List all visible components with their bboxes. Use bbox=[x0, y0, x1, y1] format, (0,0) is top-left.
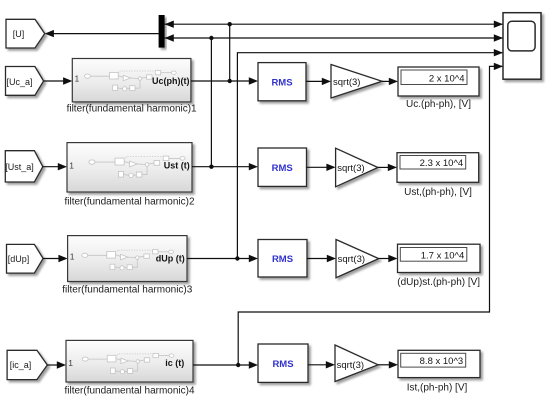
svg-text:[U]: [U] bbox=[13, 29, 25, 39]
RMS block row4 bbox=[258, 344, 308, 382]
wire line2: filter2 branch to mux input 2 and scope input 2 bbox=[165, 34, 503, 41]
wire sqrt1 to display1 bbox=[382, 78, 398, 85]
wire filter2 to RMS2 bbox=[192, 163, 258, 170]
svg-text:RMS: RMS bbox=[271, 77, 292, 88]
gain sqrt(3) row3 bbox=[336, 240, 379, 278]
wire line1: filter1 branch to mux input 1 and scope input 1 bbox=[165, 21, 503, 28]
wire line3: filter3 branch to scope input 3 bbox=[237, 49, 503, 259]
junction dot on line2 bbox=[209, 36, 213, 40]
display row1 bbox=[398, 67, 479, 110]
gain sqrt(3) row1 bbox=[331, 65, 382, 99]
svg-text:2.3 x 10^4: 2.3 x 10^4 bbox=[420, 158, 464, 169]
svg-text:RMS: RMS bbox=[272, 359, 293, 370]
subsystem filter2 bbox=[64, 143, 194, 208]
from tag [Ust_a] bbox=[5, 151, 43, 182]
gain sqrt(3) row2 bbox=[336, 148, 378, 187]
svg-text:ic (t): ic (t) bbox=[165, 358, 184, 368]
subsystem filter1 bbox=[67, 59, 197, 115]
RMS block row1 bbox=[258, 63, 306, 101]
wire RMS4 to sqrt4 bbox=[308, 361, 335, 368]
display row3 bbox=[397, 244, 480, 288]
gain sqrt(3) row4 bbox=[335, 345, 378, 382]
svg-text:filter(fundamental harmonic)3: filter(fundamental harmonic)3 bbox=[62, 284, 192, 295]
svg-text:sqrt(3): sqrt(3) bbox=[333, 77, 360, 88]
svg-text:Uc.(ph-ph), [V]: Uc.(ph-ph), [V] bbox=[406, 99, 471, 110]
svg-text:1: 1 bbox=[69, 160, 74, 170]
junction dot on row2 wire bbox=[209, 165, 213, 169]
from tag [dUp] bbox=[7, 244, 44, 273]
from tag [ic_a] bbox=[7, 350, 47, 379]
svg-text:dUp (t): dUp (t) bbox=[156, 253, 185, 263]
svg-text:sqrt(3): sqrt(3) bbox=[337, 163, 364, 174]
svg-text:sqrt(3): sqrt(3) bbox=[337, 360, 364, 371]
wire filter3 to RMS3 bbox=[187, 255, 258, 262]
wire line4: filter4 branch to scope input 4 bbox=[238, 63, 503, 365]
svg-text:[Ust_a]: [Ust_a] bbox=[5, 162, 34, 172]
wire [Uc_a] to filter1 bbox=[44, 77, 73, 84]
svg-text:Uc(ph)(t): Uc(ph)(t) bbox=[152, 76, 190, 86]
junction dot on row3 wire bbox=[235, 256, 239, 260]
scope block bbox=[503, 13, 541, 80]
RMS block row3 bbox=[258, 240, 307, 278]
wire [ic_a] to filter4 bbox=[47, 361, 66, 368]
mux M1 bbox=[159, 15, 165, 48]
wire RMS1 to sqrt1 bbox=[306, 78, 331, 85]
wire riser1 bbox=[229, 24, 231, 81]
svg-text:[Uc_a]: [Uc_a] bbox=[6, 77, 32, 87]
wire sqrt3 to display3 bbox=[379, 255, 398, 262]
svg-text:Ust (t): Ust (t) bbox=[164, 161, 190, 171]
wire sqrt2 to display2 bbox=[378, 164, 397, 171]
svg-text:Ust,(ph-ph), [V]: Ust,(ph-ph), [V] bbox=[404, 187, 472, 198]
svg-text:RMS: RMS bbox=[272, 254, 293, 265]
RMS block row2 bbox=[258, 148, 307, 186]
junction dot on row1 wire bbox=[228, 79, 232, 83]
wire RMS2 to sqrt2 bbox=[307, 164, 336, 171]
svg-text:[ic_a]: [ic_a] bbox=[10, 360, 32, 370]
svg-text:2 x 10^4: 2 x 10^4 bbox=[429, 73, 465, 84]
junction dot on line1 bbox=[228, 22, 232, 26]
from tag [Uc_a] bbox=[6, 67, 44, 96]
svg-text:1: 1 bbox=[68, 358, 73, 368]
svg-text:Ist,(ph-ph) [V]: Ist,(ph-ph) [V] bbox=[407, 382, 468, 393]
svg-text:1.7 x 10^4: 1.7 x 10^4 bbox=[421, 250, 465, 261]
svg-text:(dUp)st.(ph-ph) [V]: (dUp)st.(ph-ph) [V] bbox=[397, 277, 480, 288]
subsystem filter3 bbox=[62, 236, 192, 296]
svg-text:RMS: RMS bbox=[272, 163, 293, 174]
svg-text:filter(fundamental harmonic)4: filter(fundamental harmonic)4 bbox=[64, 385, 194, 396]
junction dot on row4 wire bbox=[236, 363, 240, 367]
wire mux output to [U] bbox=[45, 30, 159, 37]
svg-text:filter(fundamental harmonic)2: filter(fundamental harmonic)2 bbox=[64, 196, 194, 207]
wire sqrt4 to display4 bbox=[378, 361, 398, 368]
svg-text:1: 1 bbox=[75, 74, 80, 84]
svg-text:8.8 x 10^3: 8.8 x 10^3 bbox=[420, 356, 464, 367]
wire filter1 to RMS1 bbox=[191, 77, 258, 84]
wire riser2 bbox=[210, 38, 212, 167]
wire [Ust_a] to filter2 bbox=[43, 163, 67, 170]
svg-text:1: 1 bbox=[70, 252, 75, 262]
goto tag [U] bbox=[6, 19, 45, 48]
wire [dUp] to filter3 bbox=[43, 255, 68, 262]
display row4 bbox=[398, 350, 480, 393]
svg-text:filter(fundamental harmonic)1: filter(fundamental harmonic)1 bbox=[67, 103, 197, 114]
subsystem filter4 bbox=[64, 340, 194, 396]
svg-text:sqrt(3): sqrt(3) bbox=[338, 254, 365, 265]
svg-text:[dUp]: [dUp] bbox=[8, 254, 30, 264]
wire filter4 to RMS4 bbox=[193, 361, 258, 368]
wire RMS3 to sqrt3 bbox=[307, 255, 336, 262]
display row2 bbox=[397, 153, 479, 198]
